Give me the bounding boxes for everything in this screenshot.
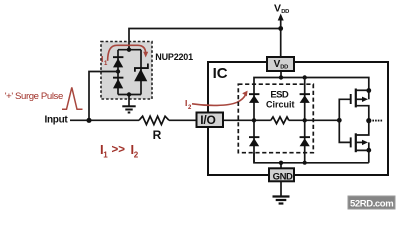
svg-text:Circuit: Circuit: [266, 100, 295, 110]
node output: [366, 118, 371, 123]
transistor Q1 gate bar: [350, 94, 352, 104]
label I1: [101, 54, 108, 67]
node ESD right mid: [303, 118, 307, 122]
svg-text:GND: GND: [273, 171, 293, 182]
diode D6 (ESD right bottom): [300, 136, 310, 146]
transistor Q2 channel bar: [355, 133, 357, 152]
wire I/O to ESD: [223, 119, 271, 121]
node gate junction: [337, 118, 342, 123]
wire input line: [70, 119, 139, 121]
pad I/O box: [197, 113, 224, 128]
svg-text:2: 2: [134, 151, 139, 160]
transistor Q1 bulk tie: [368, 90, 370, 99]
diode D3 (ESD left top): [249, 93, 259, 103]
svg-text:DD: DD: [281, 9, 289, 15]
svg-text:V: V: [274, 3, 281, 15]
transistor Q2 bulk arrow: [356, 141, 364, 143]
node right branch top: [303, 75, 307, 79]
node input junction: [86, 118, 91, 123]
node junction VDD rail: [278, 26, 283, 31]
transistor Q1 source lead: [356, 89, 369, 91]
svg-text:IC: IC: [213, 65, 228, 82]
transistor Q1 (PMOS) gate wire: [339, 99, 350, 120]
node Q1 source: [366, 88, 371, 93]
transistor Q2 bulk tie: [368, 142, 370, 150]
diode D2 (NUP left bottom): [113, 77, 123, 89]
svg-text:1: 1: [103, 151, 108, 160]
ground (below GND pad): [273, 197, 290, 204]
svg-text:I/O: I/O: [200, 113, 215, 127]
current arrow I1 (red, inside NUP): [108, 45, 146, 61]
label I1 >> I2: [100, 142, 139, 160]
node Q2 source: [366, 148, 371, 153]
wire NUP to ground: [128, 95, 130, 107]
svg-text:'+' Surge Pulse: '+' Surge Pulse: [5, 91, 63, 102]
wire GND rail inside IC: [254, 153, 369, 163]
wire ESD branches: [254, 78, 305, 163]
transistor Q1 drain lead: [356, 106, 369, 121]
svg-text:R: R: [153, 128, 162, 142]
wire VDD rail inside IC: [254, 78, 369, 92]
diode D1 (NUP left top): [113, 56, 123, 67]
transistor Q1 channel bar: [355, 89, 357, 108]
wire GND box to ground: [280, 182, 282, 196]
transistor Q1 bulk arrow: [356, 98, 364, 100]
wire ESD mid rail right: [289, 119, 340, 121]
wire output continuation dots: [372, 120, 382, 122]
zener diode Z1 (NUP right): [134, 64, 149, 82]
pad VDD box: [267, 57, 294, 71]
watermark 52RD.com: [348, 196, 395, 209]
wire resistor to I/O: [169, 119, 196, 121]
svg-text:DD: DD: [280, 65, 288, 71]
TVS array NUP2201 box: [101, 42, 152, 100]
ground (below NUP2201): [122, 106, 135, 112]
resistor (ESD internal): [271, 117, 289, 124]
transistor Q2 source lead: [356, 150, 369, 162]
svg-text:>>: >>: [112, 144, 126, 156]
node GND pad junction: [279, 161, 283, 165]
wire NUP input tap to input line: [89, 72, 118, 121]
node VDD top label: [274, 3, 289, 16]
wire GND pad stub: [280, 163, 282, 168]
wire NUP internal rails and branches: [118, 42, 141, 95]
diode D4 (ESD left bottom): [249, 136, 259, 146]
pad GND box: [269, 168, 294, 181]
wire VDD vertical: [280, 18, 282, 57]
node NUP input tap: [116, 69, 120, 73]
svg-text:52RD.com: 52RD.com: [350, 198, 393, 209]
current arrow I2 (red): [192, 94, 246, 105]
node right branch bottom: [303, 161, 307, 165]
IC box: [208, 62, 388, 175]
transistor Q2 gate bar: [350, 137, 352, 147]
diode D5 (ESD right top): [300, 93, 310, 103]
node VDD pad junction: [279, 75, 283, 79]
wire NUP top rail to VDD node: [129, 29, 281, 50]
surge pulse waveform: [62, 87, 83, 109]
svg-text:NUP2201: NUP2201: [155, 52, 193, 62]
node NUP top junction: [127, 48, 131, 52]
wire VDD pad stub: [280, 71, 282, 78]
node NUP bottom junction: [127, 92, 131, 96]
resistor R: [139, 116, 169, 124]
transistor Q2 (NMOS) gate wire: [339, 120, 350, 142]
transistor Q2 drain lead: [356, 121, 369, 135]
label I2 (red): [185, 98, 192, 111]
node ESD left mid: [252, 118, 256, 122]
arrow to VDD: [278, 14, 284, 21]
ESD circuit dashed box: [238, 84, 313, 153]
svg-text:Input: Input: [45, 115, 69, 126]
label ESD Circuit: [266, 89, 295, 109]
